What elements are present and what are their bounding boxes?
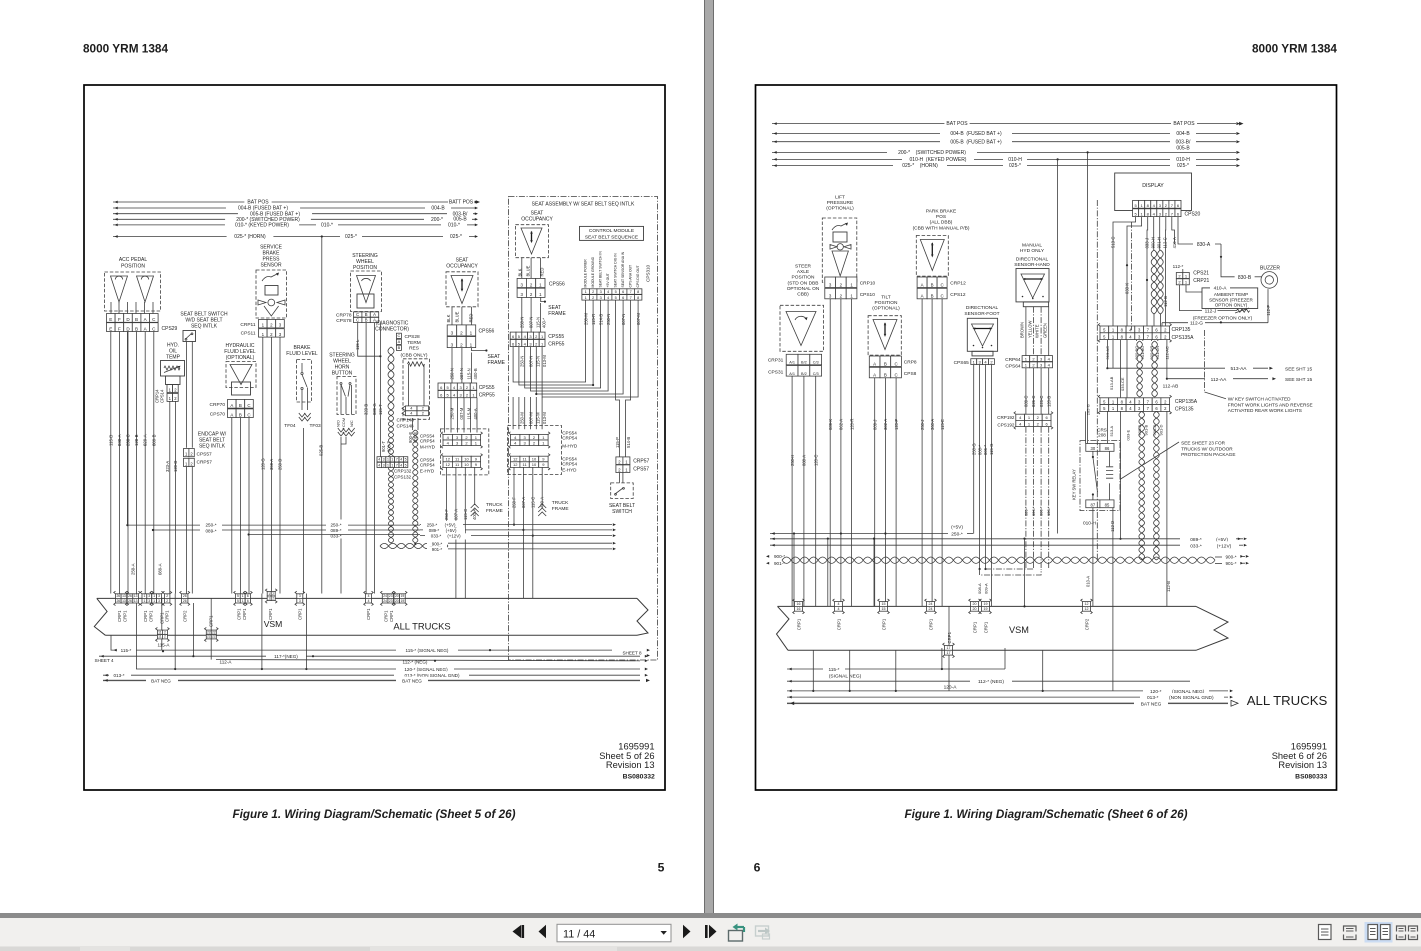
svg-text:CPS ANA OUT: CPS ANA OUT	[629, 265, 633, 288]
svg-text:CPS70: CPS70	[210, 412, 226, 418]
svg-text:C: C	[247, 403, 250, 408]
svg-text:CRP135A: CRP135A	[1175, 399, 1198, 405]
svg-text:120-* (SIGNAL NEG): 120-* (SIGNAL NEG)	[404, 667, 448, 672]
buzzer	[1260, 266, 1280, 323]
svg-text:112-* (NEG): 112-* (NEG)	[978, 679, 1004, 685]
svg-text:5: 5	[237, 599, 239, 603]
wires 323-B 089-G 115-T from CPS78	[355, 323, 383, 594]
svg-text:CRP8: CRP8	[904, 360, 917, 366]
sensor: directional sensor-hand (manual hyd only)	[1014, 243, 1050, 356]
svg-text:900-*: 900-*	[432, 541, 443, 546]
wire 513-AA to sheet 15	[1107, 364, 1312, 372]
svg-text:250-N: 250-N	[606, 314, 611, 325]
svg-text:CRP54: CRP54	[562, 436, 577, 441]
svg-text:E-HYD: E-HYD	[420, 469, 435, 474]
svg-text:6: 6	[622, 290, 624, 294]
svg-text:Figure 1. Wiring Diagram/Schem: Figure 1. Wiring Diagram/Schematic (Shee…	[904, 808, 1187, 821]
svg-text:1: 1	[470, 331, 473, 336]
svg-text:10: 10	[532, 457, 537, 462]
svg-text:112-B: 112-B	[1163, 296, 1168, 307]
svg-text:007-M: 007-M	[459, 407, 464, 419]
svg-text:A: A	[230, 403, 233, 408]
svg-text:CRP192: CRP192	[997, 415, 1015, 420]
svg-text:112-A: 112-A	[220, 659, 233, 664]
svg-text:410-A: 410-A	[1214, 285, 1228, 291]
svg-text:DISPLAY: DISPLAY	[1142, 183, 1164, 189]
connector CPS20 (5 1 8 4 3 2 7 6)	[1133, 200, 1201, 217]
svg-text:1: 1	[391, 458, 393, 462]
connector CPS54/CRP54 E-HYD (mid)	[420, 454, 483, 474]
svg-text:513-AA: 513-AA	[1231, 366, 1248, 372]
svg-text:BLUE: BLUE	[525, 265, 530, 276]
svg-text:E: E	[109, 326, 112, 331]
svg-text:4: 4	[400, 463, 402, 467]
svg-text:CPS78: CPS78	[336, 318, 352, 324]
page divider bar	[704, 0, 714, 913]
svg-text:26: 26	[128, 599, 132, 603]
svg-text:115-R: 115-R	[591, 314, 596, 325]
svg-text:B: B	[884, 373, 887, 378]
svg-text:CRP1: CRP1	[973, 621, 978, 633]
svg-text:C: C	[247, 412, 250, 417]
svg-text:088-A: 088-A	[802, 455, 807, 466]
svg-text:CRP1: CRP1	[929, 618, 934, 630]
wires from CPS192 into outdoor-protection dashed region	[1023, 427, 1051, 569]
svg-text:SEAT SWITCH DIG IN: SEAT SWITCH DIG IN	[614, 253, 618, 288]
svg-text:025-*: 025-*	[1009, 163, 1021, 169]
svg-text:CRP132: CRP132	[394, 469, 412, 474]
svg-text:FRONT WORK LIGHTS AND REVERSE: FRONT WORK LIGHTS AND REVERSE	[1228, 402, 1313, 407]
toolbar: two page continuous layout icon	[1397, 926, 1418, 940]
connector CPS65 (1 3 4 2)	[954, 359, 995, 367]
node: seat frame (mid)	[471, 348, 505, 366]
toolbar: continuous scrolling layout icon	[1344, 926, 1357, 940]
svg-text:13: 13	[134, 599, 138, 603]
svg-text:5: 5	[405, 458, 407, 462]
svg-text:089-J: 089-J	[872, 420, 877, 430]
svg-text:400-*: 400-*	[542, 318, 547, 328]
svg-text:CRP54: CRP54	[420, 439, 435, 444]
connector CRP1 20|19 on VSM (sheet 6)	[969, 599, 992, 633]
svg-text:5: 5	[615, 296, 617, 300]
svg-text:003-B/: 003-B/	[1176, 139, 1191, 145]
svg-text:SHEET 4: SHEET 4	[94, 658, 114, 663]
labels 513-AB 033-CE 112-AB	[1109, 341, 1178, 397]
switch: brake fluid level float switch	[284, 345, 323, 594]
svg-text:B/2: B/2	[801, 361, 807, 365]
labels 205-G 513-A 033-E 900-B 901-B 900-D 901-D / CRS 208	[1086, 404, 1164, 440]
svg-text:19: 19	[984, 607, 988, 611]
wire 117-*(NEG) / 112-* (sheet 5)	[99, 652, 648, 665]
sensor: seat occupancy (in seat assembly)	[515, 211, 553, 277]
svg-text:SEAT BELT SEQUENCE: SEAT BELT SEQUENCE	[585, 235, 638, 241]
svg-text:089-*: 089-*	[331, 528, 342, 533]
svg-text:3: 3	[148, 594, 150, 598]
svg-text:900-DR: 900-DR	[1149, 346, 1154, 360]
svg-text:BS080333: BS080333	[1295, 774, 1327, 781]
svg-text:004-B (FUSED BAT +): 004-B (FUSED BAT +)	[950, 131, 1002, 137]
schematic border frame sheet 6	[756, 85, 1337, 790]
svg-text:115-N: 115-N	[536, 356, 541, 367]
ground: truck frame (mid)	[471, 497, 504, 516]
svg-text:W/ KEY SWITCH ACTIVATED: W/ KEY SWITCH ACTIVATED	[1228, 397, 1291, 402]
svg-text:200-*: 200-*	[431, 217, 443, 223]
svg-text:3: 3	[158, 599, 160, 603]
svg-text:ACTIVATED REAR WORK LIGHTS: ACTIVATED REAR WORK LIGHTS	[1228, 408, 1302, 413]
svg-text:12: 12	[1085, 607, 1089, 611]
svg-text:TRUCK: TRUCK	[486, 502, 503, 508]
svg-text:033-K: 033-K	[1125, 283, 1130, 294]
svg-text:23: 23	[389, 599, 393, 603]
svg-text:007-N: 007-N	[459, 368, 464, 379]
svg-text:120-D: 120-D	[173, 461, 178, 472]
svg-text:FRAME: FRAME	[486, 508, 503, 514]
wire 120-* signal neg (sheet 6)	[787, 687, 1233, 695]
svg-text:901-*: 901-*	[432, 547, 443, 552]
connector CRP1 group B on VSM	[140, 591, 172, 622]
svg-text:CPS135: CPS135	[1175, 407, 1194, 413]
junction wires to bottom rails (sheet 5)	[137, 594, 492, 670]
wires 115-P 514-B to CRP57	[615, 378, 631, 457]
svg-text:CRP1: CRP1	[389, 610, 394, 622]
svg-text:2: 2	[460, 331, 463, 336]
svg-text:CRP55: CRP55	[479, 393, 495, 399]
svg-text:115-*: 115-*	[121, 648, 132, 653]
wires 250-H 088-A 120-C to VSM	[790, 376, 819, 606]
svg-text:2: 2	[166, 599, 168, 603]
sensor: hydraulic oil temperature (thermistor)	[161, 343, 185, 385]
svg-text:N/O: N/O	[336, 420, 341, 427]
connector CRP1 15 on VSM (sheet 6)	[878, 599, 890, 630]
svg-text:2: 2	[460, 342, 463, 347]
svg-text:(CBB WITH MANUAL P/B): (CBB WITH MANUAL P/B)	[913, 225, 970, 231]
toolbar: last page button	[705, 925, 717, 938]
module: VSM band (sheet 6)	[777, 606, 1197, 650]
sensor: service brake pressure sensor	[256, 245, 287, 319]
svg-text:2: 2	[164, 635, 166, 639]
net 250-* (+5V) line (sheet 6)	[770, 524, 973, 537]
wires 089-K 062-A 120-R to VSM	[828, 299, 854, 607]
wires 250-G 008-* 006-* 115-G	[971, 365, 994, 607]
svg-text:CRP1: CRP1	[143, 610, 148, 622]
svg-text:3: 3	[299, 594, 301, 598]
svg-text:089-B: 089-B	[151, 434, 156, 446]
svg-text:3: 3	[148, 599, 150, 603]
wire BAT NEG (sheet 5)	[103, 676, 650, 683]
svg-text:CRP2: CRP2	[183, 610, 188, 622]
svg-text:SEAT SENSOR ANA IN: SEAT SENSOR ANA IN	[621, 251, 625, 287]
module: DISPLAY	[1115, 173, 1192, 211]
svg-text:20: 20	[973, 607, 977, 611]
svg-text:901-H: 901-H	[1157, 237, 1162, 248]
wire BAT NEG (sheet 6)	[787, 699, 1238, 707]
connector CPS29 (E F D B A C)	[107, 314, 178, 333]
svg-text:010-H: 010-H	[1008, 157, 1022, 163]
svg-text:120-P: 120-P	[894, 419, 899, 430]
svg-text:112-AB: 112-AB	[1163, 383, 1179, 389]
svg-text:10: 10	[464, 462, 469, 467]
svg-text:115-* (SIGNAL NEG): 115-* (SIGNAL NEG)	[406, 648, 449, 653]
svg-text:1: 1	[153, 599, 155, 603]
sensor: ambient temp sensor (freezer option only)	[1180, 284, 1258, 321]
svg-text:A: A	[873, 361, 876, 366]
svg-text:112-AA: 112-AA	[1211, 377, 1227, 383]
svg-text:C: C	[894, 361, 897, 366]
svg-text:BAT POS: BAT POS	[946, 121, 968, 127]
svg-text:FRAME: FRAME	[548, 311, 566, 317]
svg-text:CRP78: CRP78	[336, 312, 352, 318]
svg-text:A: A	[398, 339, 401, 344]
svg-text:C: C	[397, 333, 400, 338]
svg-text:010-*: 010-*	[448, 223, 460, 229]
svg-text:010-H (KEYED POWER): 010-H (KEYED POWER)	[910, 157, 967, 163]
svg-text:B: B	[365, 312, 368, 317]
connector CRP11/CPS11 (1 2 3)	[240, 320, 284, 338]
svg-text:901-DR: 901-DR	[1155, 346, 1160, 360]
svg-text:(OPTIONAL): (OPTIONAL)	[826, 206, 854, 212]
wires 010-H 112-D below relay	[1083, 508, 1115, 691]
svg-text:26: 26	[116, 594, 120, 598]
svg-text:12: 12	[513, 457, 518, 462]
svg-text:6: 6	[622, 296, 624, 300]
connector CPS54/CRP54 M-HYD (mid)	[420, 429, 489, 475]
svg-text:007-N: 007-N	[621, 314, 626, 325]
svg-text:112-*: 112-*	[1173, 264, 1184, 269]
svg-text:TILT: TILT	[881, 295, 891, 301]
svg-text:004-B: 004-B	[1176, 131, 1190, 137]
svg-text:089-*: 089-*	[429, 528, 440, 533]
svg-text:A: A	[921, 294, 924, 299]
svg-text:BATT POS: BATT POS	[449, 200, 474, 206]
svg-text:033-CE: 033-CE	[1120, 377, 1125, 391]
wire 112-AA to sheet 15	[1167, 375, 1313, 383]
svg-text:11: 11	[158, 630, 162, 634]
connector CRP1 group C on VSM	[234, 591, 253, 620]
svg-text:BUTTON: BUTTON	[332, 371, 353, 377]
svg-text:ACC PEDAL: ACC PEDAL	[119, 257, 148, 263]
svg-text:3: 3	[383, 458, 385, 462]
sensor: seat occupancy (M-HYD/E-HYD)	[446, 258, 478, 323]
svg-text:1: 1	[470, 342, 473, 347]
svg-text:11: 11	[158, 635, 162, 639]
svg-text:250-N: 250-N	[519, 317, 524, 328]
connector CPS57/CRP57 endcap w/ seat belt seq intlk	[184, 432, 227, 594]
svg-text:900-BG: 900-BG	[1134, 346, 1139, 360]
sensor: hydraulic fluid level (optional)	[224, 343, 256, 395]
svg-text:Figure 1. Wiring Diagram/Schem: Figure 1. Wiring Diagram/Schematic (Shee…	[232, 808, 515, 821]
svg-text:BLK: BLK	[446, 314, 451, 322]
svg-text:POSITION: POSITION	[875, 300, 898, 306]
connector CPS21/CRP21	[1173, 264, 1210, 285]
svg-text:HYD ONLY: HYD ONLY	[1020, 248, 1045, 254]
switch: steering wheel horn button	[329, 353, 356, 594]
title block sheet 6	[1272, 742, 1328, 781]
svg-text:(+12V): (+12V)	[1217, 543, 1232, 549]
svg-text:C: C	[356, 312, 359, 317]
svg-text:514-B: 514-B	[598, 314, 603, 325]
svg-text:1: 1	[585, 290, 587, 294]
svg-text:115-M: 115-M	[466, 407, 471, 419]
connector CRP64/CPS64 (1 2 3 4)	[1005, 356, 1052, 370]
svg-text:4: 4	[838, 607, 840, 611]
svg-text:115-A: 115-A	[158, 643, 171, 648]
svg-text:20: 20	[395, 594, 399, 598]
svg-text:901-BG: 901-BG	[1140, 346, 1145, 360]
svg-text:Revision 13: Revision 13	[606, 760, 655, 770]
svg-text:025-*: 025-*	[1177, 163, 1189, 169]
svg-text:089-*: 089-*	[1023, 506, 1028, 516]
svg-text:007-M: 007-M	[529, 412, 534, 424]
svg-text:26: 26	[183, 599, 187, 603]
svg-text:24: 24	[383, 599, 387, 603]
svg-text:CPS310: CPS310	[646, 264, 651, 282]
wires 250-M 115-R 514-B 250-N 007-N 007-M from CPS310	[513, 300, 641, 397]
svg-text:CRP64: CRP64	[1005, 357, 1021, 363]
svg-text:CRP54: CRP54	[420, 463, 435, 468]
svg-text:6: 6	[247, 599, 249, 603]
svg-text:22: 22	[207, 630, 211, 634]
connector CRP10/CPS10 (3 2 1)	[825, 277, 876, 299]
svg-text:VSM: VSM	[1009, 625, 1029, 635]
svg-text:117-*(NEG): 117-*(NEG)	[274, 654, 298, 659]
svg-text:033-E: 033-E	[1126, 429, 1131, 440]
svg-text:CPS DIG OUT: CPS DIG OUT	[636, 265, 640, 287]
wires 250-M 007-M 115-M 013-M to M-HYD (seat assembly)	[513, 397, 547, 429]
power bus BAT POS / fused / switched / keyed / horn (sheet 5)	[113, 197, 480, 240]
svg-text:SEQ INTLK: SEQ INTLK	[199, 444, 226, 450]
svg-text:250-H: 250-H	[790, 455, 795, 466]
connector CRP1 single E on VSM	[295, 591, 305, 620]
svg-text:010-*: 010-*	[321, 223, 333, 229]
svg-text:CRP21: CRP21	[1193, 278, 1209, 284]
svg-text:CRP1: CRP1	[298, 608, 303, 620]
svg-text:TERM: TERM	[407, 340, 421, 346]
svg-text:C: C	[894, 373, 897, 378]
svg-text:112-G: 112-G	[1190, 321, 1203, 327]
sensor: tilt position (optional)	[868, 295, 901, 356]
sensor: steer axle position	[780, 264, 824, 352]
sensor: directional sensor-foot	[964, 305, 999, 356]
svg-text:010-H: 010-H	[1176, 157, 1190, 163]
svg-text:E: E	[109, 317, 112, 322]
svg-text:BAT NEG: BAT NEG	[1141, 701, 1162, 707]
svg-text:SENSOR: SENSOR	[260, 263, 282, 269]
svg-text:205-G: 205-G	[1086, 404, 1091, 415]
svg-text:ALL TRUCKS: ALL TRUCKS	[393, 621, 450, 632]
svg-text:B: B	[135, 326, 138, 331]
svg-text:250-C: 250-C	[126, 434, 131, 446]
wires 089-J 302-A 120-P to VSM	[872, 378, 898, 607]
svg-text:1: 1	[242, 594, 244, 598]
svg-text:CRP1: CRP1	[164, 610, 169, 622]
svg-text:10: 10	[532, 462, 537, 467]
connector CRP70/CPS70 (A B C)	[210, 400, 254, 418]
svg-text:120-G: 120-G	[260, 458, 265, 470]
svg-text:115-E: 115-E	[940, 419, 945, 430]
svg-text:089-A: 089-A	[158, 563, 163, 575]
svg-text:CBB): CBB)	[797, 292, 809, 298]
svg-text:FRAME: FRAME	[488, 360, 506, 366]
svg-text:CPS57: CPS57	[197, 452, 213, 458]
svg-text:CPS56: CPS56	[549, 282, 565, 288]
svg-text:2: 2	[422, 407, 424, 411]
switch: seat belt switch	[609, 473, 635, 516]
wires 250-N 007-N 115-N 400-* (seat assembly)	[519, 297, 546, 332]
svg-text:CPS31: CPS31	[768, 370, 784, 376]
svg-text:250-*: 250-*	[427, 523, 438, 528]
svg-text:CRP57: CRP57	[633, 459, 649, 465]
svg-text:11 / 44: 11 / 44	[563, 929, 595, 941]
svg-text:C: C	[941, 282, 944, 287]
svg-text:CPS55: CPS55	[479, 385, 495, 391]
svg-text:5: 5	[615, 290, 617, 294]
svg-text:4: 4	[607, 296, 609, 300]
svg-text:MODULE GROUND: MODULE GROUND	[591, 256, 595, 287]
connector CPS310 pins (1-8)	[582, 289, 642, 300]
switch: seat belt switch w/d seat belt seq intlk	[180, 312, 228, 448]
svg-text:120-B: 120-B	[1046, 396, 1051, 407]
svg-text:120-C: 120-C	[813, 455, 818, 466]
svg-text:CRP57: CRP57	[197, 460, 213, 466]
svg-text:POS: POS	[936, 214, 946, 220]
svg-text:(CBB ONLY): (CBB ONLY)	[400, 353, 427, 359]
svg-text:CRP135: CRP135	[1172, 327, 1191, 333]
svg-text:830-A: 830-A	[1197, 242, 1211, 248]
svg-text:4: 4	[368, 599, 370, 603]
svg-text:CRP11: CRP11	[240, 322, 255, 328]
svg-text:250-*: 250-*	[206, 523, 217, 528]
svg-text:250-M: 250-M	[450, 407, 455, 419]
svg-text:16: 16	[797, 602, 801, 606]
svg-text:013-*: 013-*	[114, 673, 125, 678]
svg-text:YELLOW: YELLOW	[1028, 320, 1033, 338]
toolbar: next page button	[683, 925, 691, 938]
svg-text:025-* (HORN): 025-* (HORN)	[902, 163, 938, 169]
svg-text:2: 2	[422, 412, 424, 416]
svg-text:115-G: 115-G	[989, 444, 994, 455]
wire 025-B horn drop	[321, 235, 323, 593]
svg-text:4: 4	[410, 407, 412, 411]
connector CRP1 single D on VSM	[265, 589, 277, 620]
svg-text:026-C: 026-C	[1039, 396, 1044, 407]
svg-text:12: 12	[1085, 602, 1089, 606]
svg-text:B: B	[931, 294, 934, 299]
svg-text:C: C	[356, 317, 359, 322]
toolbar: page number combo 11 / 44	[557, 924, 671, 942]
svg-text:8: 8	[637, 290, 639, 294]
svg-text:2: 2	[592, 296, 594, 300]
svg-text:3: 3	[451, 342, 454, 347]
wires 513-AC 900-BG 901-BG 900-DR 901-DR 112-AC below CRP135	[1105, 340, 1170, 398]
wire 513-C from CPS20 pin 5	[1111, 217, 1136, 368]
svg-text:900-*: 900-*	[1226, 554, 1237, 559]
svg-text:6: 6	[754, 861, 761, 875]
schematic border frame sheet 5	[84, 85, 665, 790]
svg-text:17: 17	[947, 651, 951, 655]
svg-text:SHEET 8: SHEET 8	[622, 651, 642, 656]
svg-text:250-J: 250-J	[920, 420, 925, 430]
svg-text:RES: RES	[409, 346, 419, 352]
svg-text:250-N: 250-N	[450, 368, 455, 379]
connector CRP31/CPS31 (A/1 B/2 C/3)	[768, 354, 822, 376]
svg-text:115-N: 115-N	[466, 368, 471, 379]
svg-text:VSM: VSM	[264, 619, 283, 629]
wires 250-F 007-A 115-C 400-A to truck frame (seat assembly)	[512, 467, 545, 598]
svg-text:112-F: 112-F	[1266, 305, 1271, 316]
connector CRP1 group G on VSM	[381, 591, 408, 622]
toolbar: single page layout icon	[1319, 925, 1332, 940]
svg-text:KEY SW RELAY: KEY SW RELAY	[1072, 469, 1077, 500]
